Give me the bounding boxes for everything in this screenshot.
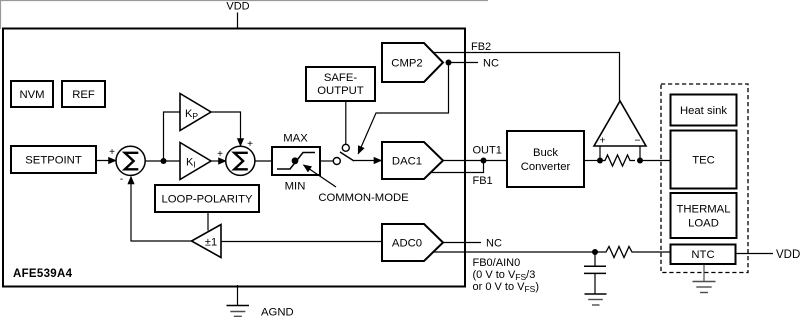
svg-text:OUT1: OUT1 — [473, 145, 502, 157]
svg-text:±1: ±1 — [205, 237, 217, 249]
wire switch to DAC1 — [354, 160, 382, 162]
block SETPOINT — [11, 146, 96, 173]
svg-text:NTC: NTC — [691, 249, 714, 261]
svg-text:REF: REF — [72, 89, 95, 101]
svg-text:AFE539A4: AFE539A4 — [13, 268, 73, 280]
wire NC stub ADC0 — [443, 242, 481, 244]
summing junction 1 — [116, 146, 145, 175]
svg-text:NVM: NVM — [19, 89, 44, 101]
svg-text:FB2: FB2 — [471, 41, 491, 53]
block SAFE-OUTPUT — [306, 67, 375, 101]
capacitor filter — [584, 252, 606, 294]
svg-text:+: + — [109, 147, 115, 158]
svg-text:ADC0: ADC0 — [392, 238, 422, 250]
svg-text:Heat sink: Heat sink — [680, 105, 727, 117]
block TEC — [671, 131, 737, 189]
comparator CMP2 — [382, 43, 443, 82]
wire OUT1 — [443, 160, 506, 162]
svg-text:NC: NC — [483, 58, 499, 70]
svg-text:MIN: MIN — [285, 181, 306, 193]
svg-text:CMP2: CMP2 — [391, 58, 422, 70]
block LOOP-POLARITY — [155, 185, 259, 212]
block REF — [62, 81, 105, 107]
wire node up to KP — [164, 112, 181, 161]
junction dot RC filter — [592, 249, 598, 255]
wire summer1 to KI — [145, 160, 180, 162]
svg-text:−: − — [634, 135, 640, 147]
svg-text:DAC1: DAC1 — [392, 156, 422, 168]
DAC DAC1 — [382, 142, 443, 179]
svg-text:SETPOINT: SETPOINT — [25, 155, 82, 167]
wire FB1 loopback — [432, 161, 484, 173]
svg-text:FB0/AIN0: FB0/AIN0 — [473, 257, 521, 269]
svg-text:LOAD: LOAD — [688, 218, 719, 230]
wire KP to summer2 top — [211, 112, 241, 146]
block NVM — [11, 81, 53, 107]
ADC ADC0 — [382, 224, 443, 261]
junction dot sense left — [597, 158, 603, 164]
ground NTC — [693, 265, 716, 293]
polarity amp ±1 — [192, 225, 222, 258]
svg-text:THERMAL: THERMAL — [677, 204, 731, 216]
switch throw contact circle (from limiter) — [333, 158, 340, 165]
crop frame gray line top — [0, 0, 488, 2]
ground AGND symbol — [227, 285, 250, 316]
wire ADC0 input from polarity amp — [221, 241, 382, 243]
wire op-amp minus input — [639, 146, 641, 161]
junction dot sense right — [637, 158, 643, 164]
svg-text:LOOP-POLARITY: LOOP-POLARITY — [161, 194, 252, 206]
svg-text:OUTPUT: OUTPUT — [317, 85, 364, 97]
svg-text:+: + — [217, 149, 223, 160]
op-amp current sense amplifier — [594, 101, 646, 147]
svg-text:VDD: VDD — [776, 249, 800, 261]
wire summer2 to limiter — [255, 160, 271, 162]
wire resistor to NTC — [634, 251, 671, 253]
resistor NTC sense — [595, 247, 634, 258]
resistor sense (current shunt) — [600, 155, 635, 166]
summing junction 2 — [226, 146, 255, 175]
wire VDD to box top — [237, 13, 239, 30]
node junction dot — [161, 158, 167, 164]
svg-text:FB1: FB1 — [473, 175, 493, 187]
crop frame gray line left — [0, 0, 2, 29]
switch throw contact circle (from safe-output) — [342, 144, 349, 151]
svg-text:NC: NC — [486, 238, 502, 250]
block THERMAL LOAD — [671, 193, 737, 238]
svg-text:SAFE-: SAFE- — [324, 72, 358, 84]
wire feedback to summer1 — [131, 177, 192, 242]
wire CMP2 control to switch — [358, 63, 448, 154]
svg-text:COMMON-MODE: COMMON-MODE — [318, 192, 409, 204]
wire LOOP-POLARITY to polarity amp — [207, 212, 209, 231]
svg-text:AGND: AGND — [261, 306, 294, 317]
wire FB2 to op-amp — [434, 53, 620, 102]
AFE539A4 device boundary box — [3, 29, 465, 287]
svg-text:Buck: Buck — [533, 147, 558, 159]
svg-text:MAX: MAX — [283, 133, 308, 145]
block Buck Converter — [507, 131, 584, 187]
label COMMON-MODE with pointer arrow — [304, 165, 410, 204]
gain amp KI — [180, 143, 211, 180]
wire sense to TEC — [640, 160, 670, 162]
svg-text:Converter: Converter — [521, 161, 571, 173]
svg-text:TEC: TEC — [692, 155, 715, 167]
switch lever — [340, 152, 354, 161]
block Heat sink — [671, 95, 737, 126]
wire FB0/AIN0 to RC node — [433, 251, 595, 253]
wire buck output to TEC — [584, 160, 600, 162]
junction dot CMP2 output — [446, 60, 452, 66]
junction dot OUT1/FB1 — [481, 158, 487, 164]
wire limiter to switch throw contact — [321, 160, 333, 162]
block NTC — [671, 245, 736, 265]
ground capacitor — [585, 294, 607, 305]
wire NC stub CMP2 — [449, 62, 479, 64]
dashed thermal assembly box — [661, 84, 748, 273]
limiter block — [272, 147, 320, 175]
wire NTC to VDD — [736, 253, 773, 255]
wire op-amp plus input — [599, 146, 601, 161]
svg-text:+: + — [599, 135, 605, 147]
gain amp KP — [180, 94, 211, 131]
svg-text:-: - — [120, 174, 123, 185]
wire KI to summer2 — [211, 160, 226, 162]
svg-text:VDD: VDD — [226, 1, 249, 13]
wire SETPOINT to summer1 — [96, 160, 116, 162]
wire SAFE-OUTPUT to switch throw — [345, 102, 347, 144]
